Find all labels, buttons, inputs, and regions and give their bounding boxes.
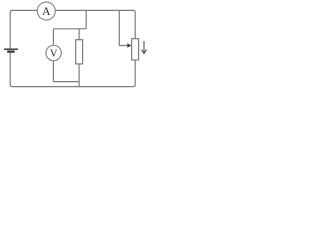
wire: top wire from ammeter to top-right corner and right wire down to rheostat (55, 10, 135, 38)
wire: middle branch horizontal connecting voltmeter and resistor tops (53, 28, 86, 30)
wire: rheostat wiper wire from top wire (119, 10, 128, 45)
resistor R rectangle (76, 40, 83, 64)
adjustment direction arrow (down) (142, 41, 147, 54)
wire: resistor bottom stub to bottom wire (78, 64, 80, 87)
wire: junction drop from top wire to middle branch (85, 10, 87, 28)
svg-text:A: A (42, 6, 51, 18)
svg-text:V: V (50, 48, 58, 59)
ammeter A circle (37, 2, 55, 20)
wire: voltmeter bottom stub + bottom branch to resistor leg (53, 61, 79, 82)
battery B1 short plate (7, 50, 15, 52)
wire: top-left loop (left wire upper part + top wire to ammeter) (10, 10, 37, 48)
wire: left wire lower part + bottom wire + right wire lower part (10, 52, 135, 87)
voltmeter V circle (46, 45, 61, 60)
arrowhead of rheostat wiper (127, 43, 131, 48)
wire: resistor top stub (78, 29, 80, 40)
wire: voltmeter top stub (52, 29, 54, 46)
battery B1 long plate (4, 48, 18, 50)
rheostat R2 rectangle (132, 39, 139, 60)
